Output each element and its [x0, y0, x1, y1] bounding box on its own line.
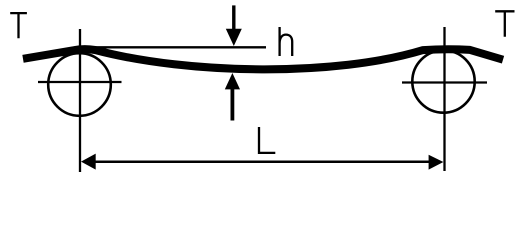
left pulley crosshair horizontal line	[38, 81, 122, 83]
h dimension down arrow stem	[232, 5, 235, 31]
label T (left tension)	[10, 13, 27, 38]
chord reference line (undeflected belt line)	[85, 46, 266, 48]
L dimension right arrowhead	[429, 155, 444, 170]
h dimension down arrowhead	[226, 29, 242, 46]
label h (deflection)	[280, 27, 293, 56]
left pulley circle	[48, 53, 111, 116]
right pulley crosshair horizontal line	[402, 81, 487, 83]
right pulley crosshair vertical line	[443, 27, 445, 171]
label T (right tension)	[495, 11, 514, 37]
left pulley crosshair vertical line	[79, 29, 81, 172]
L dimension line	[92, 161, 432, 164]
L dimension left arrowhead	[81, 154, 96, 170]
h dimension up arrow stem	[230, 88, 234, 121]
right pulley circle	[412, 50, 474, 112]
h dimension up arrowhead	[225, 73, 240, 89]
label L (span length)	[259, 127, 275, 153]
belt / wire span	[23, 49, 503, 69]
